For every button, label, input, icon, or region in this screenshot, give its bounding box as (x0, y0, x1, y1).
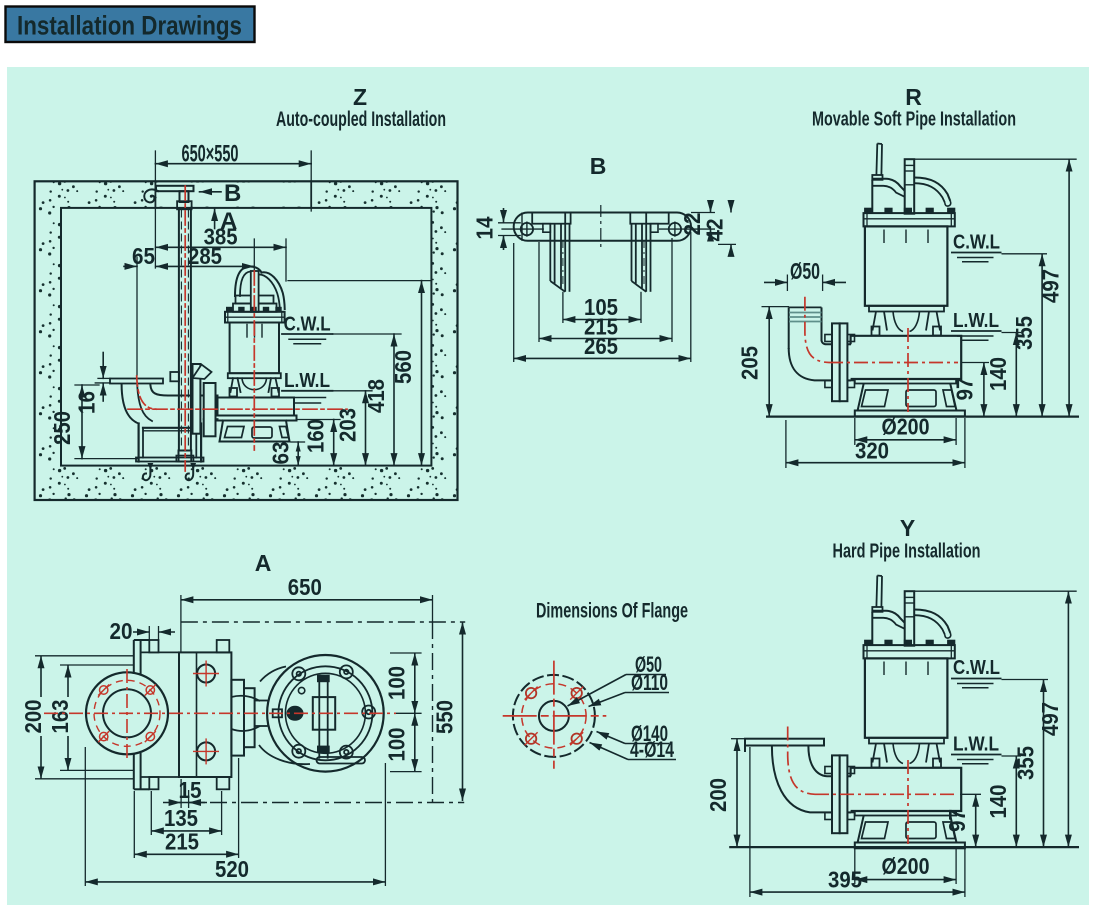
dim 497 (1067, 591, 1069, 847)
base frame (138, 424, 140, 462)
dim 16 (102, 353, 104, 379)
pump Z volute (218, 398, 295, 416)
svg-text:140: 140 (985, 357, 1011, 391)
dim 265 (513, 243, 515, 362)
bracket plate (514, 213, 691, 241)
svg-text:100: 100 (384, 666, 410, 700)
svg-text:160: 160 (303, 419, 329, 453)
ext pipe center to 97 (960, 793, 981, 795)
ext cwl to 355 (1002, 253, 1048, 255)
red elbow centerline (137, 376, 156, 409)
pump center column (313, 697, 335, 730)
pit inner wall (61, 208, 431, 466)
hose pipe vertical (788, 307, 790, 349)
red pipe centerline (788, 727, 815, 795)
dim 355 (1041, 254, 1043, 417)
svg-text:520: 520 (215, 856, 249, 882)
dim 135 (150, 791, 152, 835)
phantom pit outline (181, 621, 465, 623)
pit opening gap cover (157, 183, 310, 207)
dim 140 (1015, 333, 1017, 417)
ext lwl to 140 (1002, 755, 1022, 757)
svg-text:Ø200: Ø200 (882, 853, 930, 879)
svg-text:R: R (905, 84, 922, 110)
svg-text:497: 497 (1037, 702, 1063, 736)
dim 200 (40, 656, 42, 697)
svg-text:16: 16 (74, 391, 100, 414)
left hanger (532, 213, 570, 224)
flange outer circle (513, 675, 595, 757)
svg-text:418: 418 (363, 379, 389, 413)
pump Z stand (220, 421, 290, 442)
svg-text:Auto-coupled Installation: Auto-coupled Installation (276, 108, 446, 131)
red centerline pipe (128, 408, 347, 410)
pit outer wall (35, 181, 458, 500)
hard pipe elbow outer (772, 746, 832, 812)
svg-text:140: 140 (985, 785, 1011, 819)
pump Z cable (262, 272, 285, 309)
pump Z cap (236, 296, 274, 304)
svg-text:63: 63 (268, 442, 294, 465)
dim 42 (718, 243, 736, 245)
plate centerline (600, 205, 602, 248)
elbow mid wall (137, 386, 152, 422)
pump Z top flange (225, 312, 285, 323)
guide rail top bracket (156, 186, 194, 191)
red pipe centerline (805, 297, 829, 363)
svg-text:285: 285 (188, 243, 222, 269)
dim 160 (333, 420, 335, 466)
svg-text:B: B (590, 153, 607, 179)
svg-text:550: 550 (432, 700, 458, 734)
ext pipe center to 97 (962, 362, 989, 364)
svg-text:320: 320 (855, 438, 889, 464)
flange circle (86, 672, 168, 754)
discharge claw plate (110, 379, 163, 384)
dim 215 (133, 791, 135, 858)
title bar (6, 7, 255, 43)
pump Z handle (235, 267, 262, 297)
body bolt lower (197, 742, 215, 760)
red crosshair (503, 715, 607, 717)
right extension lines (288, 280, 431, 282)
svg-text:200: 200 (20, 700, 46, 734)
dim 520 (84, 747, 86, 886)
svg-text:4-Ø14: 4-Ø14 (630, 737, 675, 762)
pump body Y (825, 576, 965, 849)
svg-text:14: 14 (472, 216, 498, 239)
hose clamps (789, 312, 822, 314)
svg-text:20: 20 (110, 618, 133, 644)
pump Z legs (231, 378, 241, 392)
svg-text:215: 215 (165, 829, 199, 855)
elbow inner wall (150, 385, 168, 396)
svg-text:L.W.L: L.W.L (953, 734, 999, 756)
ground line (729, 846, 1079, 848)
svg-text:135: 135 (164, 805, 198, 831)
left bolt (521, 223, 533, 235)
svg-text:97: 97 (952, 378, 978, 401)
coupling plate 2 (204, 383, 216, 436)
dim 163 (67, 665, 69, 697)
svg-text:250: 250 (49, 411, 75, 445)
svg-text:15: 15 (179, 777, 202, 803)
svg-text:65: 65 (132, 243, 155, 269)
pump Z flange bolts (226, 307, 232, 312)
coupling body (179, 652, 231, 777)
right hanger (630, 213, 668, 224)
wall bracket plate (745, 739, 824, 746)
svg-text:Ø200: Ø200 (882, 414, 930, 440)
dim 100 lower (414, 713, 416, 771)
svg-text:C.W.L: C.W.L (953, 657, 1000, 679)
lifting hook (144, 189, 158, 202)
dim 250 (81, 385, 83, 459)
dim 14 (503, 208, 505, 223)
dim 550 (462, 622, 464, 801)
bolt holes (526, 688, 582, 744)
pit opening edge left (154, 181, 156, 208)
svg-text:Ø110: Ø110 (631, 670, 668, 695)
dim 205 (762, 306, 790, 308)
pump lugs (292, 665, 375, 758)
flange plate edge (134, 640, 141, 789)
bolt circle red (522, 684, 586, 748)
anchor bolt right (190, 463, 196, 470)
red centerline rail (184, 186, 186, 471)
label A with arrow (214, 209, 216, 229)
svg-text:265: 265 (584, 333, 618, 359)
svg-text:Ø50: Ø50 (790, 258, 820, 284)
svg-text:Z: Z (353, 84, 367, 110)
svg-text:B: B (224, 180, 241, 207)
svg-text:Hard Pipe Installation: Hard Pipe Installation (833, 541, 981, 563)
elbow outer wall (122, 384, 139, 424)
ext cwl to 355 (1002, 679, 1049, 681)
guide rail (178, 209, 180, 451)
dim 200 (731, 738, 747, 740)
elbow outer (789, 348, 832, 380)
svg-text:395: 395 (828, 867, 862, 893)
svg-text:L.W.L: L.W.L (953, 310, 999, 332)
pit concrete wall speckle (35, 181, 458, 500)
ground line (766, 416, 1079, 418)
flange inner circle (539, 701, 569, 731)
pump body R (825, 144, 965, 417)
svg-text:Y: Y (900, 515, 915, 541)
svg-text:L.W.L: L.W.L (284, 370, 330, 392)
claw arms (231, 696, 260, 731)
hard pipe elbow inner (808, 746, 832, 776)
svg-text:Dimensions Of Flange: Dimensions Of Flange (536, 600, 688, 623)
pump handle bar (317, 757, 366, 764)
body top tab left (149, 640, 158, 652)
anchor bolt left (148, 463, 154, 470)
svg-text:100: 100 (384, 728, 410, 762)
coupling claw bracket on rail (170, 372, 179, 381)
body bottom tab right (217, 777, 230, 789)
svg-text:203: 203 (335, 408, 361, 442)
top extension line (914, 158, 1076, 160)
dim 320 (785, 420, 787, 468)
coupling top hook (193, 365, 212, 380)
body bolt upper (197, 665, 215, 683)
dim 97 (975, 794, 977, 847)
body top tab right (217, 640, 230, 652)
ext lwl to 140 (1002, 332, 1022, 334)
dim 560 (421, 281, 423, 466)
pump Z seal plate (228, 373, 281, 378)
dim 105 (562, 292, 564, 323)
pump Z motor body (230, 323, 279, 374)
pump Z lifting rod (251, 271, 259, 312)
svg-text:650: 650 (288, 574, 322, 600)
svg-text:C.W.L: C.W.L (953, 232, 1000, 254)
coupling plate 1 (193, 364, 201, 434)
red centerline pump (253, 271, 255, 450)
right bolt (669, 223, 681, 235)
rail foot (179, 451, 192, 462)
svg-text:Installation Drawings: Installation Drawings (17, 11, 242, 41)
dim 355 (1043, 680, 1045, 848)
svg-text:205: 205 (737, 346, 763, 380)
svg-text:C.W.L: C.W.L (284, 314, 331, 336)
svg-text:163: 163 (47, 700, 73, 734)
svg-text:355: 355 (1011, 316, 1037, 350)
body bottom tab left (149, 777, 158, 789)
dim O200 (854, 849, 856, 885)
top extension line (914, 590, 1076, 592)
pump top view outer (267, 655, 384, 772)
dim 418 (393, 334, 395, 466)
extension lines (136, 257, 138, 376)
svg-text:200: 200 (705, 778, 731, 812)
connector blocks (231, 680, 244, 756)
dim 63 (297, 442, 299, 466)
dim 97 (983, 363, 985, 417)
svg-text:97: 97 (944, 809, 970, 832)
svg-text:A: A (255, 550, 272, 576)
dim 140 (1015, 756, 1017, 847)
pit opening edge right (310, 181, 312, 208)
dim 22 (691, 212, 715, 214)
dim O200 (854, 418, 856, 445)
dim 15 (180, 779, 182, 808)
label B with arrow (200, 191, 222, 193)
main red centerline (44, 712, 396, 714)
dim 215 (538, 242, 540, 342)
dim 497 (1068, 159, 1070, 416)
dim 395 (749, 747, 751, 897)
discharge pipe to pump (168, 395, 217, 397)
svg-text:Movable Soft Pipe Installation: Movable Soft Pipe Installation (812, 109, 1016, 131)
dim 100 upper (390, 652, 422, 654)
svg-text:42: 42 (702, 219, 728, 242)
dim 203 (365, 391, 367, 466)
elbow inner (822, 340, 833, 344)
